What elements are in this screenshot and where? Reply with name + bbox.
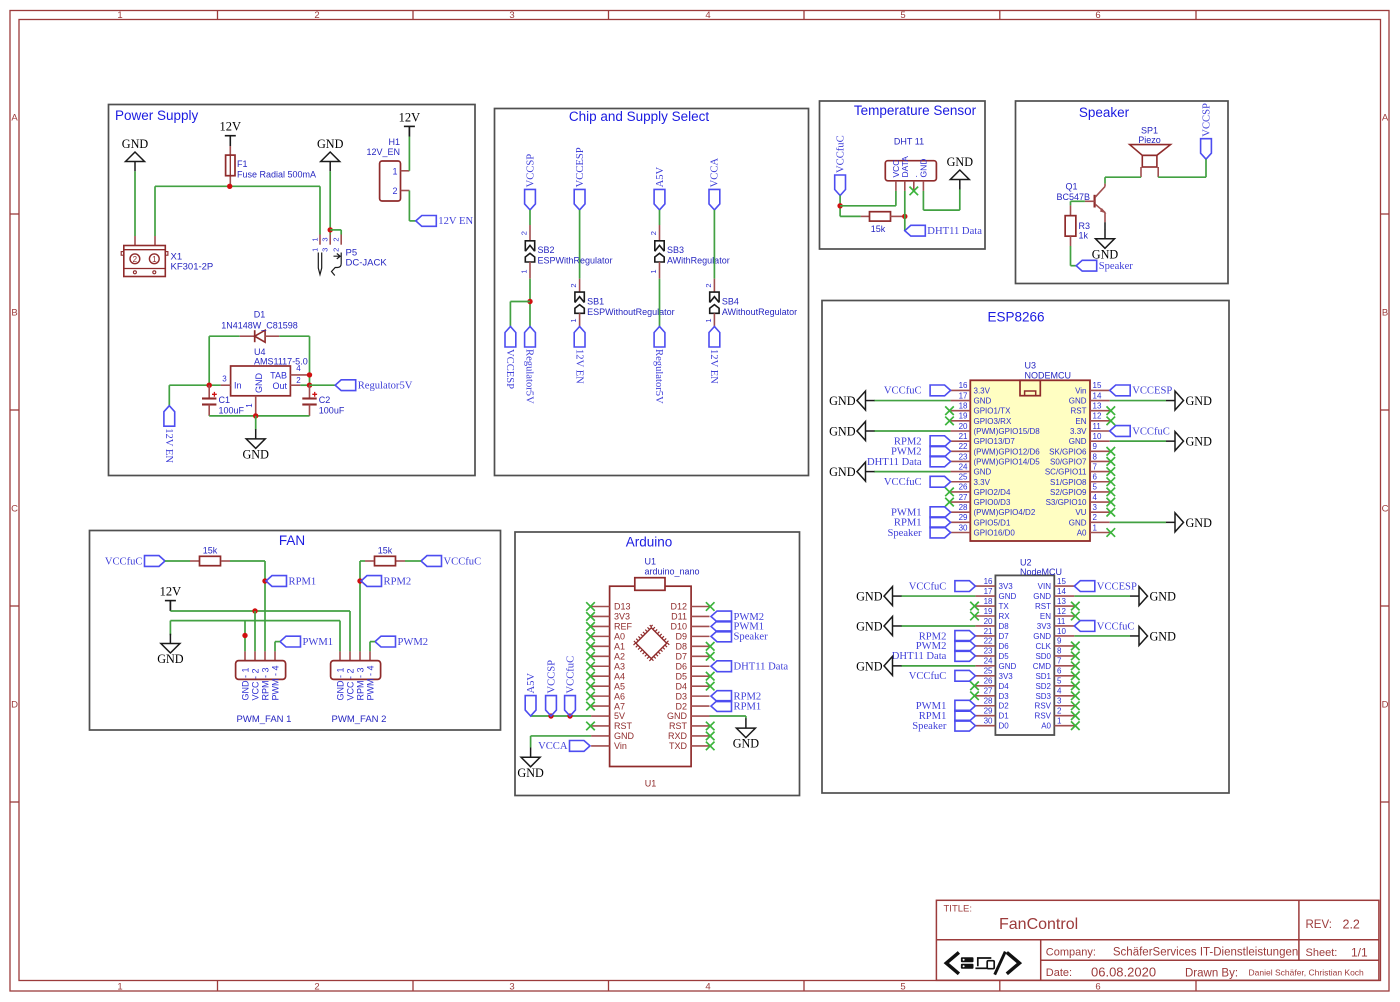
svg-text:DHT11 Data: DHT11 Data [867, 457, 922, 468]
pin 3 (VU) of U3 [1090, 511, 1110, 513]
pin 27 (GPIO0/D3) of U3 [951, 501, 971, 503]
wire PWM2 to fan 2 pin 4 [370, 641, 375, 643]
svg-text:VCCESP: VCCESP [504, 349, 515, 389]
svg-text:Out: Out [272, 381, 287, 391]
svg-text:D8: D8 [675, 642, 687, 652]
svg-text:TITLE:: TITLE: [944, 904, 973, 915]
no-connect X on DHT pin 3 [910, 187, 919, 196]
title block [936, 900, 1379, 980]
pin 4 (S3/GPIO10) of U3 [1090, 501, 1110, 503]
pin 20 ((PWM)GPIO15/D8) of U3 [951, 430, 971, 432]
pin 30 (D0) of U2 [975, 725, 995, 727]
svg-text:SB4: SB4 [722, 297, 739, 307]
svg-text:12: 12 [1093, 412, 1102, 421]
svg-text:Fuse Radial 500mA: Fuse Radial 500mA [237, 170, 316, 180]
wire to GND [901, 595, 975, 597]
mcu U2 NodeMCU [995, 575, 1054, 735]
pin A5 of U1 (left) [591, 685, 610, 687]
no-connect X [970, 602, 979, 611]
svg-text:GPIO2/D4: GPIO2/D4 [974, 488, 1011, 497]
label VCCfuC (points down to 5V rail) [565, 696, 576, 717]
label RPM2 [361, 576, 382, 587]
pin 8 (SD0) of U2 [1054, 655, 1074, 657]
svg-text:AWithoutRegulator: AWithoutRegulator [722, 307, 797, 317]
power symbol 12V (above H1) [404, 125, 415, 127]
pin 30 (GPIO16/D0) of U3 [951, 532, 971, 534]
mcu U1 arduino_nano [610, 586, 692, 766]
wire to GND [1110, 400, 1166, 402]
label RPM2 [930, 436, 951, 447]
svg-text:GND: GND [1033, 632, 1051, 641]
svg-text:Speaker: Speaker [1079, 105, 1130, 120]
svg-text:15k: 15k [871, 224, 886, 234]
wire 12V rail to P5 [230, 185, 320, 187]
svg-text:Vin: Vin [1075, 386, 1086, 395]
speaker SP1 Piezo [1130, 145, 1171, 156]
no-connect X [1071, 711, 1080, 720]
pin 2 (GND) of U3 [1090, 521, 1110, 523]
svg-text:GND: GND [999, 592, 1017, 601]
wire GND rail drop to fan 2 GND pin [339, 621, 341, 652]
wire [659, 210, 661, 225]
svg-text:.: . [909, 175, 919, 177]
pin A2 of U1 (left) [591, 655, 610, 657]
svg-text:D10: D10 [670, 622, 687, 632]
power symbol GND (left of U3) [857, 422, 866, 441]
svg-text:D: D [1382, 700, 1389, 711]
no-connect X [1107, 417, 1116, 426]
svg-text:3: 3 [222, 374, 227, 383]
svg-text:3: 3 [1093, 503, 1098, 512]
label Regulator5V (bottom col 1b) [525, 327, 536, 348]
svg-text:2: 2 [332, 237, 341, 241]
no-connect X [945, 498, 954, 507]
label Regulator5V [335, 380, 356, 391]
svg-text:GND: GND [1150, 589, 1177, 603]
svg-text:Company:: Company: [1046, 947, 1096, 959]
svg-text:A5V: A5V [655, 166, 666, 187]
svg-text:D1: D1 [999, 712, 1010, 721]
svg-text:VCCfuC: VCCfuC [835, 135, 846, 173]
wire junction to P5 pin 2 [330, 229, 341, 231]
power symbol GND (below U4) [246, 439, 265, 449]
svg-text:Q1: Q1 [1065, 182, 1077, 192]
section box Temperature Sensor [820, 101, 986, 249]
svg-text:GND: GND [829, 424, 856, 438]
wire to GND [901, 625, 975, 627]
no-connect X [1107, 447, 1116, 456]
pin D9 of U1 (right) [691, 635, 709, 637]
section box Chip and Supply Select [495, 109, 809, 476]
pin 19 (GPIO3/RX) of U3 [951, 420, 971, 422]
wire GND to P5 pin 3 [329, 171, 331, 234]
svg-text:3V3: 3V3 [999, 582, 1014, 591]
label DHT11 Data [930, 456, 951, 467]
wire ground rail under U4 [209, 415, 309, 417]
svg-text:U2: U2 [1020, 557, 1032, 567]
svg-text:In: In [234, 381, 242, 391]
pin 24 (GND) of U3 [951, 471, 971, 473]
label VCCESP [1074, 581, 1095, 592]
svg-text:2: 2 [296, 376, 301, 385]
no-connect X [586, 672, 595, 681]
no-connect X [586, 702, 595, 711]
svg-text:19: 19 [959, 412, 968, 421]
svg-text:RSV: RSV [1035, 712, 1052, 721]
label VCCfuC [930, 385, 951, 396]
svg-text:22: 22 [984, 637, 993, 646]
svg-text:5: 5 [1093, 483, 1098, 492]
solder jumper SB2 ESPWithRegulator [529, 225, 531, 241]
no-connect X [1107, 528, 1116, 537]
wire 12V rail drop to fan 2 VCC [349, 611, 351, 651]
svg-text:SB3: SB3 [667, 245, 684, 255]
svg-text:10: 10 [1093, 432, 1102, 441]
pin 18 (GPIO1/TX) of U3 [951, 410, 971, 412]
svg-text:R3: R3 [1079, 221, 1091, 231]
label VCCfuC [1074, 621, 1095, 632]
no-connect X [586, 612, 595, 621]
no-connect X [586, 632, 595, 641]
connector PWM_FAN 1 [244, 651, 246, 660]
svg-text:Speaker: Speaker [734, 632, 769, 643]
wire [529, 210, 531, 225]
svg-text:A: A [11, 113, 18, 124]
svg-text:2: 2 [314, 982, 319, 993]
svg-text:1k: 1k [1079, 231, 1089, 241]
svg-text:20: 20 [984, 617, 993, 626]
pin Vin of U1 (left) [591, 745, 610, 747]
svg-text:DHT11 Data: DHT11 Data [927, 226, 982, 237]
section box Power Supply [109, 105, 476, 476]
svg-text:15: 15 [1057, 577, 1066, 586]
svg-text:VCCfuC: VCCfuC [884, 386, 922, 397]
label DHT11 Data [905, 225, 926, 236]
label Speaker [930, 527, 951, 538]
svg-text:11: 11 [1057, 617, 1066, 626]
svg-text:GND: GND [517, 766, 544, 780]
svg-text:3.3V: 3.3V [974, 386, 991, 395]
pin 6 (SD1) of U2 [1054, 675, 1074, 677]
no-connect X [1107, 467, 1116, 476]
wire 12V rail to X1 pin 1 [155, 185, 230, 187]
wire junction to DHT VCC pin [840, 205, 896, 207]
svg-text:A0: A0 [1041, 722, 1051, 731]
svg-text:A4: A4 [614, 671, 625, 681]
pin 1 (A0) of U3 [1090, 532, 1110, 534]
pin D4 of U1 (right) [691, 685, 709, 687]
pin A6 of U1 (left) [591, 695, 610, 697]
no-connect X [970, 612, 979, 621]
resistor 15k (fan 1) [165, 560, 190, 562]
wire VCC pin down [895, 191, 897, 206]
label RPM2 (D3) [711, 691, 732, 702]
wire 15k to fan 1 RPM pin [230, 560, 265, 562]
svg-text:24: 24 [959, 462, 968, 471]
svg-text:24: 24 [984, 657, 993, 666]
svg-text:DATA: DATA [900, 156, 910, 178]
label DHT11 Data [955, 650, 976, 661]
svg-text:1: 1 [152, 255, 157, 264]
svg-text:D5: D5 [999, 652, 1010, 661]
pin 10 (GND) of U3 [1090, 440, 1110, 442]
pin 23 ((PWM)GPIO14/D5) of U3 [951, 460, 971, 462]
power symbol GND (right of U3) [1175, 513, 1184, 532]
power symbol GND (fan) [161, 644, 180, 654]
svg-text:29: 29 [959, 513, 968, 522]
svg-text:18: 18 [984, 597, 993, 606]
svg-text:15k: 15k [378, 546, 393, 556]
svg-text:NodeMCU: NodeMCU [1020, 567, 1062, 577]
svg-text:KF301-2P: KF301-2P [171, 262, 214, 273]
svg-text:D5: D5 [675, 671, 687, 681]
svg-text:RPM - 3: RPM - 3 [260, 667, 270, 700]
no-connect X [945, 417, 954, 426]
pin 27 (D3) of U2 [975, 695, 995, 697]
wire In rail from 12V EN label [169, 384, 220, 386]
svg-text:VCCSP: VCCSP [1201, 103, 1212, 137]
svg-text:C2: C2 [319, 395, 331, 405]
pin 9 (SK/GPIO6) of U3 [1090, 450, 1110, 452]
svg-text:GND: GND [733, 737, 760, 751]
svg-text:3V3: 3V3 [1037, 622, 1052, 631]
svg-text:A6: A6 [614, 691, 625, 701]
power symbol 12V (fan) [165, 600, 176, 602]
svg-text:S3/GPIO10: S3/GPIO10 [1046, 498, 1087, 507]
wire [659, 279, 661, 327]
svg-text:Regulator5V: Regulator5V [653, 349, 664, 404]
wire 12V to H1 pin 1 [408, 137, 410, 171]
pin 28 ((PWM)GPIO4/D2) of U3 [951, 511, 971, 513]
solder jumper SB4 AWithoutRegulator [713, 279, 715, 292]
svg-text:23: 23 [984, 647, 993, 656]
label PWM2 [930, 446, 951, 457]
power symbol GND (arduino right) [736, 728, 755, 738]
label VCCSP (speaker supply) [1201, 139, 1212, 160]
pin D5 of U1 (right) [691, 675, 709, 677]
label VCCA (top of column) [709, 189, 720, 210]
wire to GND [901, 665, 975, 667]
power symbol GND (right of U3) [1175, 432, 1184, 451]
wire speaker to Q1 collector [1105, 176, 1141, 178]
pin 4 (SD3) of U2 [1054, 695, 1074, 697]
no-connect X [586, 652, 595, 661]
svg-text:1: 1 [1093, 523, 1098, 532]
svg-text:3: 3 [1057, 697, 1062, 706]
pin 29 (D1) of U2 [975, 715, 995, 717]
svg-text:12V: 12V [220, 120, 242, 134]
svg-text:RXD: RXD [668, 731, 688, 741]
svg-text:6: 6 [1095, 982, 1100, 993]
svg-text:GND: GND [1186, 435, 1213, 449]
svg-text:15: 15 [1093, 381, 1102, 390]
svg-text:RST: RST [614, 721, 633, 731]
pin 3 of U4 (In) [221, 384, 231, 386]
svg-text:21: 21 [984, 627, 993, 636]
label PWM1 [280, 636, 301, 647]
svg-text:Temperature Sensor: Temperature Sensor [854, 103, 977, 118]
svg-text:D8: D8 [999, 622, 1010, 631]
wire to GND [874, 400, 951, 402]
svg-text:2: 2 [392, 186, 397, 196]
svg-text:D4: D4 [675, 681, 687, 691]
svg-text:CLK: CLK [1035, 642, 1051, 651]
svg-text:GND: GND [254, 373, 264, 394]
svg-text:17: 17 [984, 587, 993, 596]
svg-text:A3: A3 [614, 661, 625, 671]
label RPM1 [930, 517, 951, 528]
pin D8 of U1 (right) [691, 645, 709, 647]
svg-text:17: 17 [959, 391, 968, 400]
svg-text:SC/GPIO11: SC/GPIO11 [1045, 468, 1087, 477]
svg-text:3: 3 [509, 982, 514, 993]
svg-text:D9: D9 [675, 632, 687, 642]
wire [529, 279, 531, 327]
pin DATA of DHT 11 [904, 181, 906, 191]
label VCCfuC [955, 670, 976, 681]
svg-text:Piezo: Piezo [1138, 135, 1161, 145]
svg-text:7: 7 [1057, 657, 1062, 666]
pin 11 (3V3) of U2 [1054, 625, 1074, 627]
svg-text:B: B [11, 308, 17, 319]
svg-text:Power Supply: Power Supply [115, 108, 199, 123]
svg-text:GND: GND [829, 394, 856, 408]
svg-text:GND: GND [667, 711, 688, 721]
svg-text:26: 26 [984, 677, 993, 686]
svg-text:GND: GND [1069, 397, 1087, 406]
svg-text:TAB: TAB [270, 371, 287, 381]
wire Out to Regulator5V label [310, 384, 336, 386]
svg-text:VCCESP: VCCESP [1097, 581, 1137, 592]
power symbol GND (left of U2) [884, 587, 893, 606]
svg-text:1: 1 [310, 248, 319, 252]
svg-text:A5V: A5V [526, 673, 537, 694]
pin 5 (SD2) of U2 [1054, 685, 1074, 687]
wire GND (right) to GND symbol [710, 715, 746, 717]
svg-text:D7: D7 [675, 651, 687, 661]
svg-text:14: 14 [1093, 391, 1102, 400]
svg-text:1: 1 [392, 167, 397, 177]
no-connect X [1071, 701, 1080, 710]
svg-text:VCCfuC: VCCfuC [884, 477, 922, 488]
svg-text:28: 28 [959, 503, 968, 512]
capacitor C2 100uF [309, 385, 311, 398]
pin D13 of U1 (left) [591, 606, 610, 608]
svg-text:2: 2 [332, 248, 341, 252]
junction at U4 TAB [307, 372, 312, 377]
svg-text:RPM1: RPM1 [734, 701, 762, 712]
pin 7 (SC/GPIO11) of U3 [1090, 471, 1110, 473]
pin 17 (GND) of U3 [951, 400, 971, 402]
svg-text:Daniel Schäfer, Christian Koch: Daniel Schäfer, Christian Koch [1249, 968, 1365, 978]
svg-text:C: C [11, 504, 18, 515]
label VCCfuC [955, 581, 976, 592]
label VCCSP (top of column) [525, 189, 536, 210]
svg-text:4: 4 [705, 10, 710, 21]
svg-text:D11: D11 [671, 612, 687, 622]
pin GND of U1 (right) [691, 715, 709, 717]
svg-text:SD0: SD0 [1035, 652, 1051, 661]
pin 3V3 of U1 (left) [591, 615, 610, 617]
svg-text:12V: 12V [399, 110, 421, 124]
svg-text:VCCfuC: VCCfuC [1132, 426, 1170, 437]
svg-text:ESP8266: ESP8266 [987, 310, 1044, 325]
svg-text:A0: A0 [1077, 529, 1087, 538]
svg-text:GND: GND [157, 652, 184, 666]
pin 2 of U4 (Out) [290, 384, 300, 386]
no-connect X [706, 672, 715, 681]
svg-text:1: 1 [520, 269, 529, 273]
svg-text:EN: EN [1075, 417, 1086, 426]
wire DATA pin down to label [904, 191, 906, 231]
svg-text:7: 7 [1093, 462, 1098, 471]
svg-text:A7: A7 [614, 701, 625, 711]
svg-text:12V EN: 12V EN [708, 349, 719, 384]
pin D10 of U1 (right) [691, 625, 709, 627]
pin 21 (D7) of U2 [975, 635, 995, 637]
svg-text:RPM1: RPM1 [289, 576, 317, 587]
svg-text:C: C [1382, 504, 1389, 515]
svg-text:23: 23 [959, 452, 968, 461]
no-connect X [586, 722, 595, 731]
no-connect X [1071, 642, 1080, 651]
pin 16 (3V3) of U2 [975, 585, 995, 587]
svg-text:U3: U3 [1025, 361, 1037, 371]
section box Arduino [515, 532, 800, 796]
pin 24 (GND) of U2 [975, 665, 995, 667]
diode D1 1N4148W_C81598 [209, 335, 240, 337]
pin 13 (RST) of U2 [1054, 605, 1074, 607]
label Speaker [1076, 260, 1097, 271]
section box FAN [90, 531, 501, 731]
svg-text:GND: GND [947, 155, 974, 169]
svg-text:D1: D1 [254, 310, 266, 320]
svg-text:VCCSP: VCCSP [546, 660, 557, 694]
no-connect X [586, 662, 595, 671]
svg-text:NODEMCU: NODEMCU [1025, 371, 1072, 381]
pin D3 of U1 (right) [691, 695, 709, 697]
svg-text:S2/GPIO9: S2/GPIO9 [1050, 488, 1087, 497]
svg-text:6: 6 [1057, 667, 1062, 676]
wire base to R3 [1071, 200, 1085, 202]
svg-text:5V: 5V [614, 711, 625, 721]
junction at fuse output [227, 184, 232, 189]
wire to fan 1 VCC pin [254, 611, 256, 651]
svg-text:VCCfuC: VCCfuC [1097, 621, 1135, 632]
no-connect X [1107, 406, 1116, 415]
svg-text:RPM2: RPM2 [384, 576, 412, 587]
svg-text:B: B [1382, 308, 1388, 319]
svg-text:3: 3 [509, 10, 514, 21]
svg-text:29: 29 [984, 707, 993, 716]
svg-text:Speaker: Speaker [912, 721, 947, 732]
svg-text:30: 30 [959, 523, 968, 532]
svg-text:arduino_nano: arduino_nano [645, 566, 700, 576]
pin 25 (3.3V) of U3 [951, 481, 971, 483]
svg-text:3V3: 3V3 [999, 672, 1014, 681]
wire to GND [1110, 440, 1166, 442]
svg-text:PWM2: PWM2 [398, 637, 429, 648]
label RPM2 [955, 631, 976, 642]
svg-text:CMD: CMD [1033, 662, 1051, 671]
label VCCfuC [930, 476, 951, 487]
svg-text:D2: D2 [675, 701, 687, 711]
svg-text:GPIO3/RX: GPIO3/RX [974, 417, 1012, 426]
svg-text:A5: A5 [614, 681, 625, 691]
pin A7 of U1 (left) [591, 705, 610, 707]
solder jumper SB3 AWithRegulator [659, 225, 661, 241]
svg-text:26: 26 [959, 483, 968, 492]
